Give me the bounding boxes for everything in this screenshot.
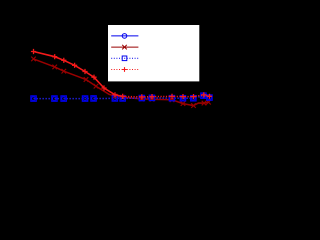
series S3 line (blue dashed, square markers) <box>31 93 212 101</box>
series S2 line (dark red solid, x markers) <box>31 57 211 108</box>
plot background <box>0 0 225 175</box>
legend box <box>108 25 199 81</box>
series S1 line (blue solid, circle markers) <box>32 94 212 101</box>
legend entry 2: dark red solid line, x marker <box>111 45 138 50</box>
series S4 line (red dashed, plus markers) <box>31 49 212 100</box>
legend entry 3: blue dashed line, square marker <box>111 56 138 61</box>
legend entry 4: red dashed line, plus marker <box>111 67 138 72</box>
legend entry 1: blue solid line, circle marker <box>111 34 138 39</box>
